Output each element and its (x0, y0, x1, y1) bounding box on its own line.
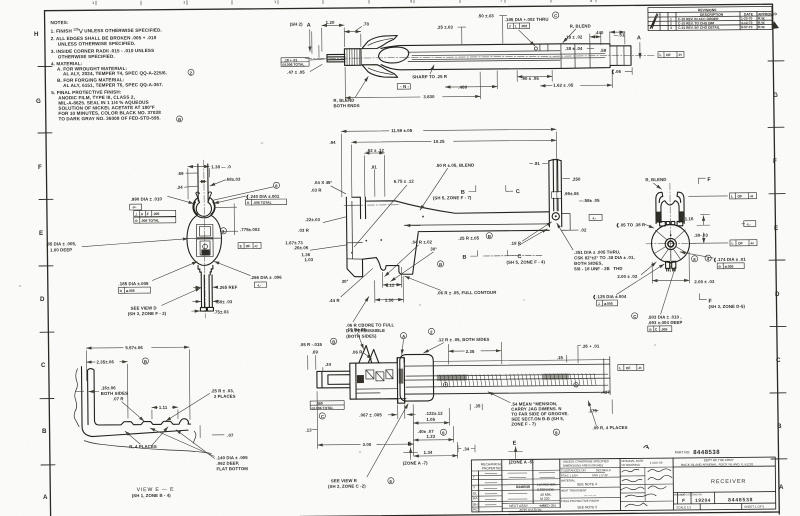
flag box E OF -H (618, 364, 644, 370)
upper wing claw (362, 35, 398, 48)
internal slots (356, 370, 397, 393)
note flag circled 2 (188, 69, 194, 75)
F section marker top (698, 178, 705, 184)
title block (471, 444, 776, 512)
legs (201, 275, 212, 308)
datum box -N- (397, 84, 410, 90)
F section marker bottom (699, 294, 706, 300)
rear tower (549, 159, 562, 227)
dashes in rows (484, 473, 555, 507)
zone letters left margin (34, 31, 48, 501)
claw C-ring (193, 192, 215, 218)
zone letters right margin (772, 21, 784, 491)
vertical tab (397, 358, 404, 404)
right section: dept of army / receiver (673, 466, 776, 510)
ribbed arm fills (656, 211, 683, 222)
top dims (188, 165, 209, 167)
rails (405, 357, 610, 397)
notes block (51, 19, 195, 124)
dim 3.830 (345, 96, 480, 97)
hatch band (440, 373, 596, 386)
dim 2.35 (448, 350, 500, 353)
muzzle body round (187, 215, 222, 265)
VIEW: bottom rail profile (299, 324, 645, 489)
lower wing claw (362, 64, 398, 77)
dark inserts (357, 367, 569, 384)
dim 5.57 (86, 346, 189, 349)
dim 1.11 (152, 406, 178, 408)
VIEW: top profile (sheet-2 section A) (281, 11, 685, 109)
dim .62 (364, 152, 384, 154)
dim .78 (344, 31, 360, 33)
feet (200, 307, 213, 311)
capsule (400, 354, 434, 401)
dim .34 near E marker (458, 445, 475, 452)
flag box E OF -H (658, 51, 684, 57)
revisions table (648, 6, 778, 30)
centerline vertical (204, 160, 206, 318)
radial spokes (654, 230, 687, 261)
datum F box + fcf boxes (130, 204, 142, 210)
top border tiny ticks (96, 0, 596, 5)
dim 2.35 (86, 361, 127, 363)
flag boxes right (730, 193, 757, 199)
dim 1.20 (322, 24, 344, 26)
knurled collar (344, 49, 361, 66)
big circle (651, 224, 689, 262)
VIEW: left end view (muzzle lollipop) (45, 159, 288, 319)
stray scan smudges (19, 142, 657, 453)
wings above head (359, 345, 379, 363)
dim .468 (456, 83, 474, 89)
revision check mark (650, 13, 658, 28)
circled C flag (552, 12, 558, 18)
main body outline (381, 43, 631, 70)
signature scribbles (621, 469, 672, 507)
faint top border column numbers (92, 0, 593, 5)
zone boundary ticks right edge (768, 61, 787, 459)
centerline (305, 55, 655, 58)
broken edges (freehand) (74, 367, 212, 454)
circled 8 flag (273, 182, 279, 188)
legs below (666, 261, 676, 271)
left section: mechanical properties rows (471, 470, 560, 508)
left boxed dim .18 +.01 (281, 58, 309, 67)
signature section (620, 467, 673, 502)
note flag circled B (176, 116, 182, 122)
neck blocks (198, 265, 213, 275)
VIEW: right end view (breech lollipop) (556, 176, 757, 333)
bolt raceway opening (378, 47, 408, 63)
label .174 DIA (705, 255, 711, 261)
bottom boxed dim (310, 401, 344, 410)
VIEW: center profile (receiver side) (284, 125, 603, 339)
bore centerline (344, 204, 400, 207)
top overall dims (341, 129, 556, 131)
flag box E OF -C (238, 242, 261, 248)
label .503 DIA (632, 313, 638, 319)
stem walls (198, 164, 208, 201)
yoke claw arms (656, 192, 684, 224)
vertical dividers (501, 460, 503, 512)
dim 3.00 (318, 443, 414, 446)
VIEW: section E-E (bottom left) (73, 343, 248, 499)
centerlines (669, 183, 672, 272)
zone boundary ticks left edge (38, 66, 55, 465)
stray ink mark (644, 446, 649, 449)
left extension dims (312, 31, 319, 57)
inner features (188, 224, 221, 256)
cap blocks (660, 221, 683, 226)
circled 3 flag (220, 228, 226, 234)
internal rails (408, 43, 624, 70)
head block (350, 358, 406, 404)
dim 1.62 +-.05 (540, 84, 612, 87)
left stub (317, 371, 350, 388)
screw circles (443, 382, 447, 386)
part main profile (346, 195, 549, 276)
barrel rod left (327, 54, 345, 62)
wall + floor part (81, 366, 190, 437)
middle tolerance/material section (560, 468, 621, 499)
dots (365, 240, 367, 242)
